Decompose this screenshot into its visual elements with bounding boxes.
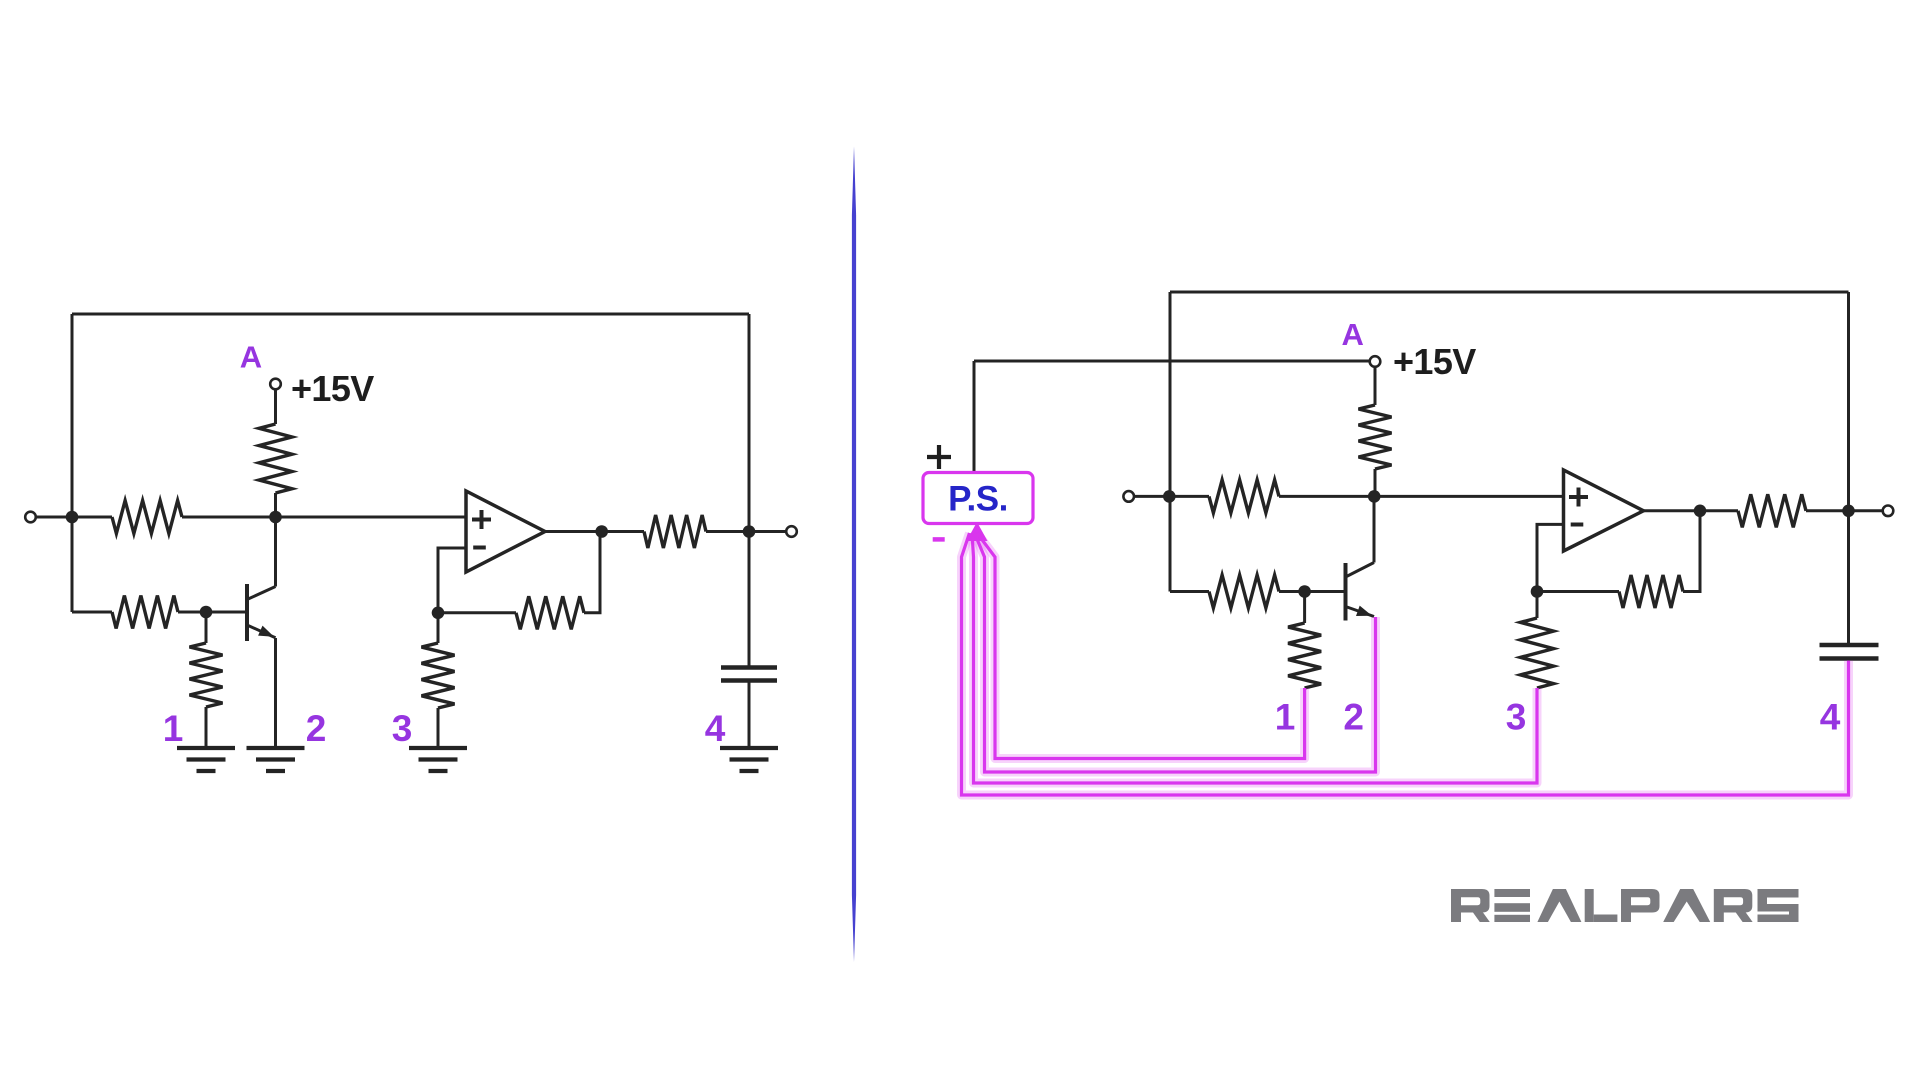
wire feedback run (right) xyxy=(1537,590,1619,593)
node input junction (left) xyxy=(66,511,79,524)
node input junction (right) xyxy=(1163,490,1176,503)
svg-text:3: 3 xyxy=(392,708,413,749)
wire R8 to main node (right) xyxy=(1374,469,1377,496)
svg-text:3: 3 xyxy=(1506,697,1527,738)
plus terminal label (P.S.) xyxy=(927,445,951,469)
resistor R10 (right base feedback) xyxy=(1209,575,1279,608)
P.S. arrowhead xyxy=(967,522,988,541)
separator divider line xyxy=(852,146,856,962)
svg-text:A: A xyxy=(240,340,262,375)
wire +15V to R8 (right) xyxy=(1374,367,1377,405)
ground 1 (left) xyxy=(177,748,235,771)
resistor R7 (left output) xyxy=(644,515,706,548)
resistor R8 (right collector load) xyxy=(1359,405,1392,469)
wire C1 to ground 4 (left) xyxy=(748,683,751,748)
wire lower row (right) xyxy=(1170,590,1209,593)
op-amp U2 (right) xyxy=(1564,470,1644,551)
wire feedback run (left) xyxy=(438,611,516,614)
supply wire 2 (P.S. to node 2) xyxy=(975,533,1376,772)
node base junction (left) xyxy=(200,606,213,619)
wire R5 to ground 3 (left) xyxy=(437,708,440,747)
input terminal (right) xyxy=(1123,491,1134,502)
input terminal (left) xyxy=(25,512,36,523)
wire R9 to op-amp (right) xyxy=(1279,495,1564,498)
svg-text:4: 4 xyxy=(1820,697,1841,738)
supply wire 4 (P.S. to node 4) xyxy=(962,533,1849,795)
minus terminal label (P.S.) xyxy=(933,537,945,542)
node base-drive junction (left) xyxy=(269,511,282,524)
node A +15V terminal (left) xyxy=(270,379,281,390)
wire R3 to ground 1 (left) xyxy=(205,707,208,747)
wire U2 inverting input (right) xyxy=(1537,524,1564,591)
node base junction (right) xyxy=(1298,585,1311,598)
resistor R3 (left base to ground) xyxy=(205,612,208,643)
right circuit xyxy=(923,292,1893,795)
wire R4 to base (left) xyxy=(178,611,247,614)
resistor R1 (left input) xyxy=(112,501,182,534)
supply wire 3 (P.S. to node 3) xyxy=(972,533,1537,783)
wire right vertical (right) xyxy=(1847,292,1850,645)
resistor R13 (right feedback) xyxy=(1619,575,1683,608)
node A +15V terminal (right) xyxy=(1370,356,1381,367)
wire R14 to out node (right) xyxy=(1806,509,1883,512)
wire R2 to node (left) xyxy=(274,493,277,517)
wire R1 to node A (left) xyxy=(182,516,466,519)
op-amp U1 (left) xyxy=(466,491,545,572)
transistor Q2 (right) xyxy=(1344,563,1348,621)
resistor R2 (left collector load) xyxy=(259,424,292,493)
svg-text:2: 2 xyxy=(1343,697,1364,738)
resistor R6 (left feedback) xyxy=(516,596,584,629)
left circuit xyxy=(25,314,797,771)
power supply P.S. box xyxy=(923,473,1033,524)
output terminal (left) xyxy=(786,526,797,537)
resistor R12 (right inverting resistor) xyxy=(1536,592,1539,619)
resistor R4 (left base feedback) xyxy=(112,596,178,629)
node inverting junction (right) xyxy=(1531,585,1544,598)
node out (left) xyxy=(743,525,756,538)
node collector junction (right) xyxy=(1368,490,1381,503)
ground 4 (left) xyxy=(720,748,778,771)
output terminal (right) xyxy=(1883,506,1894,517)
wire left vertical (left) xyxy=(71,314,74,612)
svg-text:1: 1 xyxy=(163,708,184,749)
wire Q1 emitter to ground 2 (left) xyxy=(274,638,277,747)
node output junction (left) xyxy=(595,525,608,538)
capacitor C1 (left) xyxy=(721,665,777,669)
wire input to node (left) xyxy=(36,516,112,519)
svg-text:1: 1 xyxy=(1275,697,1296,738)
wire top feedback (right) xyxy=(1170,291,1849,294)
wire top feedback (left) xyxy=(72,313,749,316)
wire U2 output (right) xyxy=(1644,509,1739,512)
svg-text:4: 4 xyxy=(705,708,726,749)
wire lower row (left) xyxy=(72,611,112,614)
wire feedback to output (right) xyxy=(1683,511,1700,592)
wire right vertical (left) xyxy=(748,314,751,666)
wire feedback to output (left) xyxy=(584,532,600,613)
wire R7 to out node (left) xyxy=(706,530,786,533)
wire U1 inverting input (left) xyxy=(438,548,466,613)
node output junction (right) xyxy=(1694,505,1707,518)
svg-text:P.S.: P.S. xyxy=(948,480,1008,519)
wire R10 to base (right) xyxy=(1279,590,1346,593)
wire left vertical (right) xyxy=(1169,292,1172,592)
supply wire 1 (P.S. to node 1) xyxy=(977,533,1305,759)
capacitor C2 (right) xyxy=(1820,643,1879,647)
transistor Q1 (left) xyxy=(245,584,249,641)
ground 2 (left) xyxy=(247,748,305,771)
ground 3 (left) xyxy=(409,748,467,771)
wire +15V to R2 (left) xyxy=(274,390,277,425)
wire P.S. plus feed (right) xyxy=(974,360,1370,363)
resistor R14 (right output) xyxy=(1738,494,1806,527)
resistor R11 (right base resistor) xyxy=(1303,592,1306,624)
wire U1 output (left) xyxy=(545,530,644,533)
svg-text:+15V: +15V xyxy=(291,368,374,409)
RealPars logo xyxy=(1451,889,1799,922)
node inverting junction (left) xyxy=(432,607,445,620)
svg-text:+15V: +15V xyxy=(1393,341,1476,382)
wire input to R9 (right) xyxy=(1134,495,1209,498)
svg-text:2: 2 xyxy=(306,708,327,749)
resistor R9 (right input) xyxy=(1209,480,1279,513)
resistor R5 (left inverting to ground) xyxy=(437,613,440,643)
svg-text:A: A xyxy=(1342,317,1364,352)
node out (right) xyxy=(1842,505,1855,518)
